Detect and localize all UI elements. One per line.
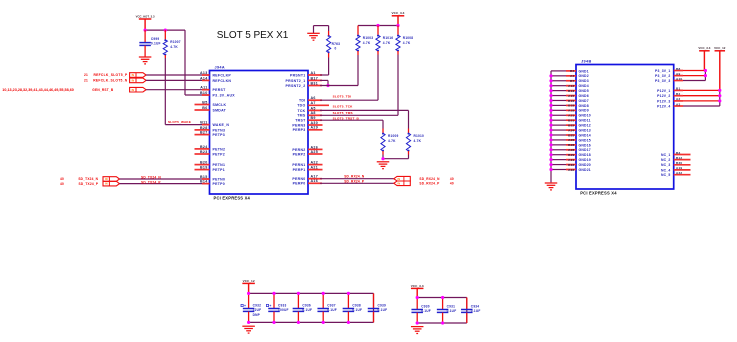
capacitor C932 22UF	[241, 293, 261, 322]
net label SLOT5_TRST_B	[333, 116, 360, 120]
junction C932 top	[247, 292, 250, 295]
svg-text:P12V_3: P12V_3	[657, 99, 670, 103]
svg-text:R1007: R1007	[170, 40, 181, 44]
resistor R1009 4.7K (TRST pull-down)	[381, 129, 399, 155]
svg-text:B23: B23	[200, 150, 208, 154]
svg-text:A21: A21	[568, 114, 574, 118]
J94B pin B21 GND11	[549, 119, 590, 123]
svg-text:0.1UF: 0.1UF	[327, 308, 337, 312]
svg-text:B28: B28	[568, 143, 574, 147]
junction C936 top	[297, 292, 300, 295]
J94A pin A6 TDI	[299, 96, 322, 103]
junction C930 bottom	[416, 321, 419, 324]
svg-text:4.7K: 4.7K	[388, 139, 396, 143]
wire PRSNT2_2 B31 to R1003	[320, 55, 358, 86]
junction C938 top	[347, 292, 350, 295]
svg-text:REFCLK_SLOT5_P: REFCLK_SLOT5_P	[93, 73, 128, 77]
svg-text:A11: A11	[200, 86, 207, 90]
svg-text:R1009: R1009	[388, 134, 399, 138]
svg-text:0.1UF: 0.1UF	[421, 309, 431, 313]
capacitor C933 100UF	[266, 293, 288, 322]
svg-text:P12V_4: P12V_4	[657, 104, 670, 108]
resistor R1010 4.7K (TCK pull-down)	[406, 129, 424, 155]
J94B pin A3 P12V_4	[657, 102, 720, 108]
svg-text:SLOT5_TCK: SLOT5_TCK	[333, 104, 354, 108]
svg-text:IN: IN	[132, 89, 135, 92]
svg-text:C934: C934	[471, 304, 480, 308]
J94B pin B7 GND3	[549, 79, 588, 83]
title SLOT 5 PEX X1	[217, 30, 289, 41]
resistor R1007 4.7K (WAKE_N pull-up)	[163, 30, 181, 58]
svg-text:PETP0: PETP0	[213, 182, 226, 186]
J94B pin B29 GND18	[549, 153, 591, 157]
ground below R1009/R1010	[377, 162, 390, 169]
J94A pin B9 TRST	[295, 116, 322, 123]
off-page connector REFCLK_SLOT5_P	[84, 73, 146, 78]
junction on VCC_HOT rail at R1007	[164, 29, 167, 32]
capacitor C931 0.1UF	[437, 298, 457, 324]
J94B pin B3 NC_1	[661, 151, 691, 157]
svg-text:GND11: GND11	[579, 119, 591, 123]
svg-text:B7: B7	[570, 79, 574, 83]
svg-text:J94B: J94B	[581, 59, 591, 63]
svg-text:10,13,23,28,32,39,41,43,44,46,: 10,13,23,28,32,39,41,43,44,46,49,55,58,6…	[2, 88, 74, 92]
svg-text:GND10: GND10	[579, 114, 591, 118]
svg-text:4.7K: 4.7K	[403, 41, 411, 45]
svg-text:C939: C939	[378, 303, 387, 307]
capacitor C930 0.1UF	[411, 298, 431, 324]
svg-text:A8: A8	[311, 111, 316, 115]
svg-text:SD_TX24_N: SD_TX24_N	[78, 177, 98, 181]
wire VCC_3.3 to P3_3V pins	[704, 71, 706, 81]
J94A pin A29 PERP3	[293, 126, 323, 133]
off-page connector GEN_RST_B	[2, 87, 146, 92]
net label SLOT5_TDI	[333, 94, 352, 98]
svg-text:A22: A22	[311, 161, 319, 165]
J94B pin B12 NC_2	[661, 156, 691, 162]
svg-text:SD_RX24_P: SD_RX24_P	[344, 179, 365, 183]
J94B pin B25 GND14	[549, 133, 591, 137]
svg-text:TMS: TMS	[297, 114, 306, 118]
wire cap bank 1 right edge	[373, 293, 375, 322]
svg-text:B1: B1	[676, 87, 680, 91]
svg-text:C932: C932	[253, 303, 262, 307]
J94A pin B5 SMCLK	[195, 100, 227, 107]
svg-text:A4: A4	[570, 74, 574, 78]
svg-text:PCI EXPRESS X4: PCI EXPRESS X4	[580, 191, 617, 196]
junction C931 top	[441, 296, 444, 299]
svg-text:R1010: R1010	[414, 134, 425, 138]
wire TCK net	[320, 110, 409, 128]
svg-text:B13: B13	[568, 89, 574, 93]
svg-text:REFCLKN: REFCLKN	[213, 79, 232, 83]
J94B pin A31 GND19	[549, 158, 591, 162]
J94A pin B31 PRSNT2_2	[286, 81, 322, 88]
J94A pin B28 PETN3	[195, 126, 226, 133]
svg-text:GND2: GND2	[579, 74, 589, 78]
svg-text:P12V_2: P12V_2	[657, 94, 670, 98]
ground below cap bank 2	[411, 327, 424, 334]
J94B pin A32 GND21	[549, 168, 591, 172]
svg-text:+: +	[269, 304, 271, 308]
svg-text:SLOT 5 PEX X1: SLOT 5 PEX X1	[217, 30, 289, 41]
svg-text:40: 40	[60, 177, 64, 181]
svg-text:GND6: GND6	[579, 94, 589, 98]
svg-text:A32: A32	[568, 168, 574, 172]
wire SD_RX24_P from pin A16	[320, 182, 394, 184]
svg-text:GND1: GND1	[579, 69, 589, 73]
svg-text:A25: A25	[311, 150, 319, 154]
svg-text:SLOT5_TDI: SLOT5_TDI	[333, 94, 352, 98]
net label SD_RX24_P on wire	[344, 179, 365, 183]
svg-text:A26: A26	[311, 145, 319, 149]
junction C933 bottom	[272, 321, 275, 324]
svg-text:P3_3V_1: P3_3V_1	[655, 69, 671, 73]
svg-text:C933: C933	[278, 303, 287, 307]
wire VCC_HOT_3.3 rail to P3_3V_AUX	[145, 30, 209, 95]
wire TRST net	[320, 120, 383, 128]
svg-text:GND12: GND12	[579, 124, 591, 128]
J94A pin A25 PERP2	[293, 150, 323, 157]
svg-text:40: 40	[60, 182, 64, 186]
svg-text:GND8: GND8	[579, 104, 589, 108]
svg-text:VCC_12: VCC_12	[243, 279, 255, 283]
svg-text:A10: A10	[676, 77, 682, 81]
svg-text:A3: A3	[676, 102, 680, 106]
wire cap bank 1 bottom rail	[249, 321, 374, 323]
svg-text:GND15: GND15	[579, 138, 591, 142]
svg-text:A19: A19	[676, 166, 682, 170]
off-page connector SD_RX24_N	[394, 176, 454, 181]
power symbol VCC_HOT_3.3	[136, 14, 155, 30]
svg-text:B27: B27	[200, 131, 208, 135]
svg-text:4.7K: 4.7K	[414, 139, 422, 143]
junction P12V_3	[718, 99, 721, 102]
svg-text:0: 0	[335, 47, 337, 51]
J94B pin A32 NC_5	[661, 171, 691, 177]
J94B pin A2 P12V_3	[657, 97, 720, 103]
power symbol VCC_3.3 (cap bank)	[411, 284, 424, 298]
svg-text:B20: B20	[200, 161, 208, 165]
svg-text:B10: B10	[200, 91, 208, 95]
svg-text:C938: C938	[352, 303, 361, 307]
junction on VCC_HOT rail at C999	[144, 29, 147, 32]
net label SD_TX24_N on wire	[141, 176, 161, 180]
svg-text:PETN0: PETN0	[213, 177, 226, 181]
junction C937 bottom	[322, 321, 325, 324]
svg-text:B4: B4	[570, 69, 574, 73]
J94A pin B19 PETP1	[195, 166, 226, 173]
svg-text:C936: C936	[302, 303, 311, 307]
svg-text:VCC_12: VCC_12	[714, 46, 726, 50]
J94A pin B20 PETN1	[195, 161, 226, 168]
J94B pin B28 GND16	[549, 143, 591, 147]
power symbol VCC_3.3 (J94B)	[698, 46, 710, 70]
wire cap bank 1 top rail	[249, 292, 374, 294]
J94A pin A26 PERN2	[292, 145, 322, 152]
wire TDI net	[320, 99, 378, 101]
svg-text:P3_3V_AUX: P3_3V_AUX	[213, 93, 236, 97]
wire R1007 to WAKE_N pin B11	[165, 58, 209, 125]
svg-text:A9: A9	[676, 72, 680, 76]
svg-text:VCC_HOT_3.3: VCC_HOT_3.3	[136, 14, 155, 18]
junction C931 bottom	[441, 321, 444, 324]
J94A pin A21 PERP1	[293, 166, 323, 173]
J94A pin A11 PERST	[200, 86, 226, 93]
ground below cap bank 1	[242, 326, 255, 333]
svg-text:GND7: GND7	[579, 99, 589, 103]
capacitor C999 0.1UF	[139, 30, 160, 57]
svg-text:40: 40	[450, 182, 454, 186]
J94A pin B27 PETP3	[195, 131, 226, 138]
svg-text:SMDAT: SMDAT	[213, 108, 227, 112]
junction P12V_1	[718, 89, 721, 92]
svg-text:SD_RX24_N: SD_RX24_N	[344, 175, 365, 179]
junction P3_3V_2	[704, 74, 707, 77]
svg-text:C937: C937	[327, 303, 336, 307]
svg-text:B29: B29	[568, 153, 574, 157]
wire TMS net	[320, 114, 398, 116]
svg-text:GND18: GND18	[579, 153, 591, 157]
svg-text:B21: B21	[568, 119, 574, 123]
J94B pin A12 GND4	[549, 84, 588, 88]
J94B pin B32 GND20	[549, 163, 591, 167]
svg-text:PERP1: PERP1	[293, 168, 306, 172]
connector J94B (PCI Express x4 slot power/gnd) body	[576, 59, 674, 195]
J94A pin A14 REFCLKN	[200, 76, 231, 83]
svg-text:B17: B17	[311, 76, 319, 80]
net label SLOT5_TCK	[333, 104, 354, 108]
svg-text:PETN1: PETN1	[213, 163, 226, 167]
wire cap bank 2 top rail	[417, 297, 467, 299]
svg-text:A14: A14	[200, 76, 208, 80]
wire VCC_12 to P12V pins	[719, 90, 721, 106]
J94A pin B24 PETN2	[195, 145, 226, 152]
J94A pin B6 SMDAT	[195, 106, 227, 113]
J94B pin A15 GND6	[549, 94, 588, 98]
svg-text:B31: B31	[311, 81, 319, 85]
ground at PRSNT1 pull-down	[307, 33, 320, 40]
net label SD_RX24_N on wire	[344, 175, 365, 179]
svg-text:C931: C931	[447, 304, 456, 308]
off-page connector SD_TX24_N	[60, 177, 120, 182]
wire GEN_RST_B to pin A11	[146, 89, 209, 91]
junction P12V_2	[718, 94, 721, 97]
svg-text:C999: C999	[151, 37, 160, 41]
svg-text:A17: A17	[311, 175, 319, 179]
svg-text:GND3: GND3	[579, 79, 589, 83]
svg-text:PETP3: PETP3	[213, 133, 226, 137]
svg-text:B18: B18	[568, 104, 574, 108]
svg-text:0.1UF: 0.1UF	[302, 308, 312, 312]
svg-text:PCI EXPRESS X4: PCI EXPRESS X4	[214, 196, 251, 201]
junction C930 top	[416, 296, 419, 299]
J94B pin A28 GND17	[549, 148, 591, 152]
svg-text:SLOT5_TMS: SLOT5_TMS	[333, 111, 353, 115]
svg-text:A7: A7	[311, 101, 316, 105]
svg-text:VCC_3.3: VCC_3.3	[698, 46, 710, 50]
wire PRSNT2_1 B17 drop	[320, 80, 328, 85]
off-page connector SD_TX24_P	[60, 181, 120, 186]
svg-text:NC_4: NC_4	[661, 168, 671, 172]
wire PRSNT1 A1 to R763	[320, 58, 329, 76]
wire J94B ground bus	[550, 71, 552, 182]
svg-text:IN: IN	[105, 183, 108, 186]
svg-text:TDI: TDI	[299, 99, 305, 103]
svg-text:B15: B15	[200, 175, 208, 179]
junction rail at R1016	[376, 24, 379, 27]
J94A pin B23 PETP2	[195, 150, 226, 157]
resistor R1003 4.7K (PRSNT2 pull-up)	[356, 26, 373, 56]
J94A pin A22 PERN1	[292, 161, 322, 168]
svg-text:PERP3: PERP3	[293, 128, 306, 132]
svg-text:VCC_3.3: VCC_3.3	[392, 11, 405, 15]
svg-text:PERP0: PERP0	[293, 182, 306, 186]
svg-text:IN: IN	[398, 182, 401, 185]
svg-text:PRSNT1: PRSNT1	[290, 73, 306, 77]
net label SD_TX24_P on wire	[141, 180, 161, 184]
capacitor C936 0.1UF	[293, 293, 313, 322]
wire SD_RX24_N from pin A17	[320, 178, 394, 180]
svg-text:PETP2: PETP2	[213, 152, 226, 156]
svg-text:REFCLK_SLOT5_N: REFCLK_SLOT5_N	[93, 79, 128, 83]
power symbol VCC_3.3 (pull-up rail)	[392, 11, 405, 25]
svg-text:4.7K: 4.7K	[383, 41, 391, 45]
svg-text:GND16: GND16	[579, 143, 591, 147]
svg-text:NC_3: NC_3	[661, 163, 671, 167]
svg-text:21: 21	[84, 79, 88, 83]
svg-text:A30: A30	[311, 121, 319, 125]
svg-text:B5: B5	[202, 100, 207, 104]
svg-text:0.1UF: 0.1UF	[447, 309, 457, 313]
J94B pin A4 GND2	[549, 74, 588, 78]
svg-text:GND17: GND17	[579, 148, 591, 152]
resistor R1008 4.7K (TMS pull-up)	[396, 26, 413, 55]
junction C938 bottom	[347, 321, 350, 324]
junction rail at R1008	[396, 24, 399, 27]
svg-text:B9: B9	[311, 116, 316, 120]
wire cap bank 2 bottom rail	[417, 322, 467, 324]
svg-text:TDO: TDO	[297, 104, 305, 108]
junction C936 bottom	[297, 321, 300, 324]
svg-text:IN: IN	[132, 80, 135, 83]
ground below J94B bus	[545, 183, 558, 190]
svg-text:B12: B12	[676, 156, 682, 160]
junction C933 top	[272, 292, 275, 295]
svg-text:100UF: 100UF	[278, 308, 289, 312]
svg-text:PERN2: PERN2	[292, 148, 305, 152]
svg-text:21: 21	[84, 73, 88, 77]
svg-text:GND14: GND14	[579, 133, 591, 137]
svg-text:R1008: R1008	[403, 36, 414, 40]
svg-text:R1016: R1016	[383, 36, 394, 40]
svg-text:SLOT5_WAKE: SLOT5_WAKE	[168, 120, 191, 124]
svg-text:J94A: J94A	[215, 66, 225, 70]
svg-text:PETN2: PETN2	[213, 147, 226, 151]
ground below C999	[139, 57, 152, 64]
J94A pin A30 PERN3	[292, 121, 322, 128]
J94B pin A21 GND10	[549, 114, 591, 118]
svg-text:B30: B30	[676, 161, 682, 165]
wire pull-up rail	[358, 25, 398, 27]
svg-text:B25: B25	[568, 133, 574, 137]
svg-text:GEN_RST_B: GEN_RST_B	[92, 88, 114, 92]
capacitor C938 0.1UF	[343, 293, 363, 322]
J94A pin A16 PERP0	[293, 179, 322, 186]
svg-text:NC_1: NC_1	[661, 153, 671, 157]
J94B pin B22 GND12	[549, 123, 591, 127]
J94A pin A17 PERN0	[292, 175, 322, 182]
svg-text:A5: A5	[311, 106, 316, 110]
resistor R1016 4.7K (TDI pull-up)	[376, 26, 393, 55]
svg-text:GND4: GND4	[579, 84, 589, 88]
svg-text:TRST: TRST	[295, 119, 306, 123]
svg-text:PETP1: PETP1	[213, 168, 226, 172]
svg-text:SD_TX24_P: SD_TX24_P	[141, 180, 161, 184]
svg-text:0.1UF: 0.1UF	[378, 308, 388, 312]
svg-text:GND20: GND20	[579, 163, 591, 167]
svg-text:SD_TX24_N: SD_TX24_N	[141, 176, 161, 180]
wire pull-downs to ground	[383, 155, 409, 159]
svg-text:40: 40	[450, 177, 454, 181]
wire SD_TX24_N to pin B15	[120, 178, 210, 180]
svg-text:B8: B8	[676, 67, 680, 71]
J94A pin A1 PRSNT1	[290, 71, 322, 78]
net label SLOT5_TMS	[333, 111, 353, 115]
junction P3_3V_1	[704, 69, 707, 72]
J94B pin A10 P3_3V_3	[655, 77, 705, 83]
svg-text:PERN1: PERN1	[292, 163, 305, 167]
svg-text:0.1UF: 0.1UF	[352, 308, 362, 312]
svg-text:REFCLKP: REFCLKP	[213, 73, 232, 77]
capacitor C939 0.1UF	[368, 293, 388, 322]
svg-text:IN: IN	[398, 178, 401, 181]
svg-text:P3_3V_3: P3_3V_3	[655, 79, 671, 83]
svg-text:P3_3V_2: P3_3V_2	[655, 74, 671, 78]
svg-text:A2: A2	[676, 97, 680, 101]
power symbol VCC_12 (J94B)	[714, 46, 726, 90]
svg-text:GND19: GND19	[579, 158, 591, 162]
wire REFCLK_SLOT5_N to pin A14	[146, 79, 209, 81]
svg-text:B22: B22	[568, 123, 574, 127]
svg-text:A18: A18	[568, 109, 574, 113]
J94B pin B30 NC_3	[661, 161, 691, 167]
svg-text:B24: B24	[200, 145, 208, 149]
svg-text:A26: A26	[568, 138, 574, 142]
svg-text:PETN3: PETN3	[213, 128, 226, 132]
J94A pin A7 TDO	[297, 101, 329, 108]
wire R1008 to TMS	[397, 55, 399, 116]
svg-text:0.1UF: 0.1UF	[151, 41, 161, 45]
resistor R763 0 (PRSNT1 to GND)	[327, 31, 341, 58]
J94A pin B14 PETP0	[200, 180, 225, 187]
svg-text:GND21: GND21	[579, 168, 591, 172]
svg-text:B2: B2	[676, 92, 680, 96]
wire cap bank 2 right edge	[466, 298, 468, 324]
svg-text:WAKE_N: WAKE_N	[213, 123, 230, 127]
J94B pin B2 P12V_2	[657, 92, 720, 98]
wire REFCLK_SLOT5_P to pin A13	[146, 74, 209, 76]
svg-text:A29: A29	[311, 126, 319, 130]
J94A pin A5 TCK	[297, 106, 322, 113]
wire SD_TX24_P to pin B14	[120, 183, 210, 185]
J94B pin A9 P3_3V_2	[655, 72, 705, 78]
J94B pin B16 GND7	[549, 99, 588, 103]
svg-text:A24: A24	[568, 128, 574, 132]
J94B pin A18 GND9	[549, 109, 588, 113]
J94A pin B11 WAKE_N	[200, 121, 229, 128]
svg-text:NC_2: NC_2	[661, 158, 671, 162]
